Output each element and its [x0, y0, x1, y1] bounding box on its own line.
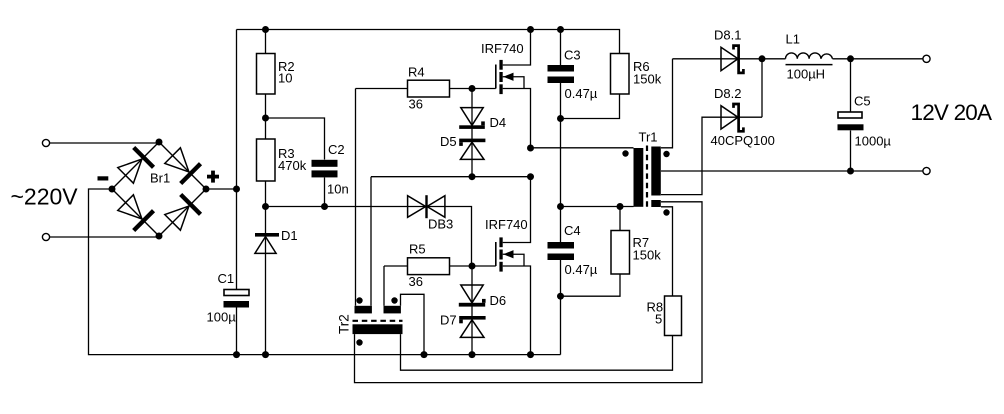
svg-text:C3: C3 [564, 48, 581, 63]
node R7 top [617, 203, 624, 210]
resistor R2 [257, 54, 276, 95]
diac DB3 [408, 195, 445, 218]
wire [355, 89, 357, 306]
wire [370, 177, 372, 306]
svg-text:5: 5 [655, 312, 662, 327]
zener D4 [459, 108, 485, 129]
node C3 top [557, 26, 564, 33]
input terminal bottom [42, 233, 49, 240]
input terminal top [42, 139, 49, 146]
node bridge right [203, 186, 210, 193]
node source upper [527, 173, 534, 180]
wire secondary bottom to D8.2 [661, 117, 762, 194]
diode D1 [255, 233, 279, 253]
svg-text:100µH: 100µH [787, 67, 826, 82]
node half-bridge mid [527, 145, 534, 152]
wire C5 column [850, 59, 852, 171]
wire D6 D7 column [471, 266, 473, 355]
wire R4 row [356, 88, 473, 90]
svg-text:D1: D1 [281, 228, 298, 243]
node C1 bottom [233, 351, 240, 358]
svg-text:R5: R5 [409, 242, 426, 257]
svg-text:C2: C2 [328, 142, 345, 157]
resistor R3 [257, 139, 276, 181]
wire secondary top to D8.1 [661, 59, 673, 148]
svg-text:10: 10 [278, 71, 292, 86]
svg-text:470k: 470k [278, 158, 307, 173]
svg-text:Tr2: Tr2 [337, 314, 352, 334]
svg-text:IRF740: IRF740 [481, 41, 524, 56]
schottky D8.1 [721, 46, 743, 73]
wire Tr2 right winding to rail [401, 294, 425, 354]
node D5 bottom [469, 173, 476, 180]
node R3 bottom [262, 203, 269, 210]
wire aux to R8 [661, 207, 673, 296]
wire [236, 30, 238, 355]
output terminal top [923, 55, 930, 62]
resistor R7 [611, 231, 630, 275]
wire L1 to output [833, 58, 924, 60]
svg-text:36: 36 [409, 274, 423, 289]
node R2 R3 [262, 115, 269, 122]
wire R7 leads [561, 207, 621, 297]
wire center tap output [661, 170, 923, 172]
node D8 cathode [759, 55, 766, 62]
wire C3 C4 column [560, 30, 562, 355]
wire Tr2 secondary right loop [401, 334, 673, 370]
svg-text:1000µ: 1000µ [855, 134, 892, 149]
wire top rail [237, 30, 620, 54]
node plus bus [233, 186, 240, 193]
wire R5 row [384, 265, 472, 267]
capacitor C3 [548, 65, 575, 83]
node L1 out [847, 55, 854, 62]
wire [383, 266, 385, 306]
node C5 bottom [847, 168, 854, 175]
svg-text:C1: C1 [218, 271, 235, 286]
wire [206, 188, 237, 190]
label plus [207, 171, 219, 183]
resistor R4 [408, 80, 450, 97]
bridge diode top-right [165, 148, 201, 184]
transformer Tr1 [622, 146, 669, 216]
svg-text:D4: D4 [490, 115, 507, 130]
bridge diode top-left [118, 148, 154, 184]
capacitor C2 [312, 160, 338, 178]
node C2 bottom [321, 203, 328, 210]
node R7 bottom [557, 293, 564, 300]
svg-text:D7: D7 [440, 313, 457, 328]
wire R6 leads [561, 94, 620, 119]
wire [371, 176, 531, 178]
bridge Br1 diamond wires [112, 142, 206, 236]
transformer Tr2 [353, 297, 403, 345]
svg-text:~220V: ~220V [11, 184, 79, 210]
svg-text:10n: 10n [327, 182, 349, 197]
wire primary bottom [561, 206, 634, 208]
node D7 bottom [469, 351, 476, 358]
node R2 top [262, 26, 269, 33]
capacitor C5 [838, 112, 864, 130]
svg-text:150k: 150k [633, 72, 662, 87]
output terminal bottom [923, 167, 930, 174]
label minus [98, 176, 109, 180]
resistor R6 [611, 54, 630, 95]
wire timing rail [266, 207, 472, 267]
svg-text:0.47µ: 0.47µ [565, 86, 598, 101]
resistor R5 [408, 258, 450, 275]
bridge diode bottom-left [118, 195, 154, 231]
schottky D8.2 [721, 104, 743, 131]
capacitor C1 [224, 290, 250, 308]
wire R2 column [265, 30, 267, 355]
inductor L1 [786, 53, 833, 65]
node source lower [527, 351, 534, 358]
node R6 bottom [557, 115, 564, 122]
svg-text:40CPQ100: 40CPQ100 [711, 133, 775, 148]
svg-text:12V 20A: 12V 20A [911, 100, 993, 125]
wire Tr2 secondary left loop [355, 202, 703, 383]
mosfet Q2 IRF740 lower [472, 177, 531, 355]
zener D5 [459, 139, 485, 160]
svg-text:Br1: Br1 [150, 171, 170, 186]
wire [50, 142, 159, 144]
node bridge top [156, 139, 163, 146]
wire [762, 58, 786, 60]
svg-text:36: 36 [409, 97, 423, 112]
svg-text:Tr1: Tr1 [639, 130, 658, 145]
node cap mid [557, 203, 564, 210]
svg-text:C4: C4 [564, 223, 581, 238]
svg-text:L1: L1 [786, 32, 800, 47]
svg-text:D8.2: D8.2 [714, 86, 741, 101]
svg-text:DB3: DB3 [428, 217, 453, 232]
resistor R8 [665, 296, 682, 336]
zener D7 [459, 316, 485, 337]
node D1 bottom [262, 351, 269, 358]
capacitor C4 [548, 242, 575, 260]
node gate lower [469, 263, 476, 270]
zener D6 [459, 285, 486, 307]
svg-text:IRF740: IRF740 [485, 217, 528, 232]
bridge diode bottom-right [165, 195, 201, 231]
svg-text:C5: C5 [854, 94, 871, 109]
wire [89, 189, 561, 355]
svg-text:D6: D6 [490, 293, 507, 308]
mosfet Q1 IRF740 upper [472, 30, 531, 149]
svg-text:0.47µ: 0.47µ [565, 262, 598, 277]
node bridge bottom [156, 233, 163, 240]
wire D8 cathodes junction [761, 59, 763, 117]
node gate upper [469, 85, 476, 92]
node bridge left [109, 186, 116, 193]
svg-text:R4: R4 [408, 65, 425, 80]
svg-text:100µ: 100µ [207, 310, 237, 325]
svg-text:D5: D5 [440, 134, 457, 149]
wire C2 branch [266, 118, 325, 207]
node drain top rail [527, 26, 534, 33]
wire D8.1 anode [673, 58, 763, 60]
wire [50, 236, 159, 238]
wire D4 D5 column [471, 89, 473, 177]
node Tr2 rail [421, 351, 428, 358]
svg-text:150k: 150k [633, 248, 662, 263]
wire primary top [531, 147, 634, 149]
svg-text:D8.1: D8.1 [714, 28, 741, 43]
